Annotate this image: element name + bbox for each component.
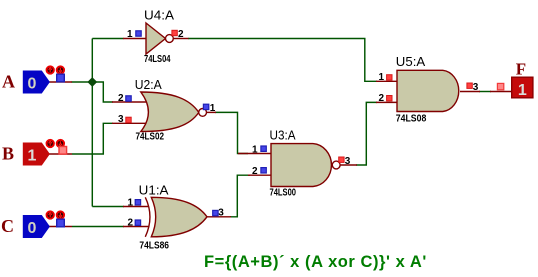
svg-text:2: 2 (178, 29, 184, 40)
svg-text:1: 1 (518, 82, 527, 99)
wire bus to U1 pin 1 (92, 206, 124, 208)
svg-text:F: F (516, 60, 526, 79)
svg-text:U2:A: U2:A (135, 77, 162, 92)
svg-text:2: 2 (118, 93, 124, 104)
AND gate U5 body (397, 70, 459, 111)
svg-text:U1:A: U1:A (139, 183, 169, 198)
inverter U4 input pin stub (123, 38, 146, 40)
NOR gate U2 output bubble (199, 109, 207, 117)
logicstate C body (23, 216, 49, 238)
wire U5 output to probe F (479, 91, 491, 93)
U2 pin 3 state square (red) (126, 117, 131, 122)
NAND gate U3 output bubble (332, 161, 340, 169)
AND gate U5 output pin stub (460, 91, 480, 93)
NAND gate U3 input pin stubs (238, 153, 272, 155)
U3 pin 2 state square (blue) (261, 168, 266, 173)
U1 pin 1 state square (blue) (135, 200, 140, 205)
svg-text:U3:A: U3:A (270, 128, 296, 143)
U4 pin 1 state square (blue) (136, 31, 141, 36)
XOR gate U1 output pin stub (207, 216, 231, 218)
svg-text:2: 2 (127, 218, 133, 229)
logicstate C state square (blue = 0) (57, 219, 65, 227)
logicstate B state square (red = 1) (59, 147, 67, 155)
svg-text:U5:A: U5:A (396, 54, 426, 69)
inverter U4 body (146, 23, 166, 54)
NAND gate U3 body (271, 144, 331, 187)
XOR gate U1 input pin stubs (123, 206, 149, 208)
svg-text:0: 0 (28, 220, 37, 237)
inverter U4 output bubble (166, 35, 174, 43)
svg-text:2: 2 (252, 166, 258, 177)
U1 pin 2 state square (blue) (135, 220, 140, 225)
inverter U4 output pin stub (173, 38, 189, 40)
XOR gate U1 body (151, 197, 207, 237)
svg-text:74LS86: 74LS86 (139, 241, 169, 252)
U2 pin 1 state square (blue) (203, 104, 208, 109)
svg-text:74LS08: 74LS08 (396, 114, 427, 125)
logicstate C toggle up button (47, 211, 54, 218)
U1 pin 3 state square (blue) (213, 210, 218, 215)
logicstate B body (23, 143, 49, 165)
U5 pin 1 state square (red) (387, 75, 392, 80)
wire U3 output to U5 pin 2 (356, 102, 377, 165)
wire main vertical bus from node A (91, 39, 93, 207)
svg-text:1: 1 (210, 103, 216, 114)
logicstate A state square (blue = 0) (57, 74, 65, 82)
wire A horizontal to junction (72, 81, 94, 83)
junction node A dot (88, 78, 96, 86)
wire B to U2 pin 3 (72, 123, 113, 154)
svg-text:1: 1 (28, 148, 37, 165)
svg-text:74LS04: 74LS04 (144, 54, 171, 65)
wire top run to U4 input (92, 38, 123, 40)
U5 pin 3 state square (red) (467, 83, 472, 88)
logicstate B pin stub (49, 153, 72, 155)
XOR gate U1 input arc (145, 197, 150, 237)
logicstate B toggle down button (57, 140, 64, 147)
logicstate A body (23, 71, 49, 93)
svg-text:1: 1 (127, 29, 133, 40)
wire U2 output to U3 pin 1 (215, 112, 248, 153)
svg-text:B: B (2, 144, 14, 164)
svg-text:1: 1 (252, 144, 258, 155)
svg-text:3: 3 (345, 156, 351, 167)
NOR gate U2 output pin stub (206, 111, 216, 113)
svg-text:3: 3 (473, 82, 479, 93)
svg-text:74LS00: 74LS00 (270, 188, 297, 199)
logicstate A pin stub (49, 81, 72, 83)
svg-text:2: 2 (378, 93, 384, 104)
U4 pin 2 state square (red) (172, 30, 177, 35)
U2 pin 2 state square (blue) (126, 96, 131, 101)
U3 pin 1 state square (blue) (261, 146, 266, 151)
AND gate U5 input pin stubs (376, 80, 398, 82)
NOR gate U2 body (141, 92, 199, 132)
wire C to U1 pin 2 (72, 226, 124, 228)
svg-text:3: 3 (218, 207, 224, 218)
logicprobe F pin stub (490, 91, 512, 93)
svg-text:A: A (2, 72, 15, 92)
svg-text:74LS02: 74LS02 (136, 132, 165, 143)
NOR gate U2 input pin stubs (112, 101, 148, 103)
U3 pin 3 state square (red) (339, 157, 344, 162)
logicprobe F input state square (pink) (497, 83, 503, 89)
logicstate A toggle down button (57, 66, 64, 73)
svg-text:U4:A: U4:A (144, 8, 174, 23)
wire junction to U2 pin 2 (92, 82, 113, 102)
svg-text:F={(A+B)´ x (A xor C)}' x A': F={(A+B)´ x (A xor C)}' x A' (204, 253, 427, 271)
wire U1 output to U3 pin 2 (230, 175, 250, 217)
NAND gate U3 output pin stub (339, 164, 357, 166)
wire U4 output to U5 pin 1 (188, 39, 377, 82)
logicstate C toggle down button (57, 211, 64, 218)
logicstate A toggle up button (47, 66, 54, 73)
logicprobe F body (512, 77, 533, 98)
svg-text:1: 1 (127, 198, 133, 209)
svg-text:0: 0 (28, 76, 37, 93)
logicstate C pin stub (49, 226, 72, 228)
svg-text:1: 1 (378, 72, 384, 83)
logicstate B toggle up button (47, 140, 54, 147)
svg-text:3: 3 (118, 114, 124, 125)
U5 pin 2 state square (red) (387, 96, 392, 101)
svg-text:C: C (1, 216, 14, 236)
